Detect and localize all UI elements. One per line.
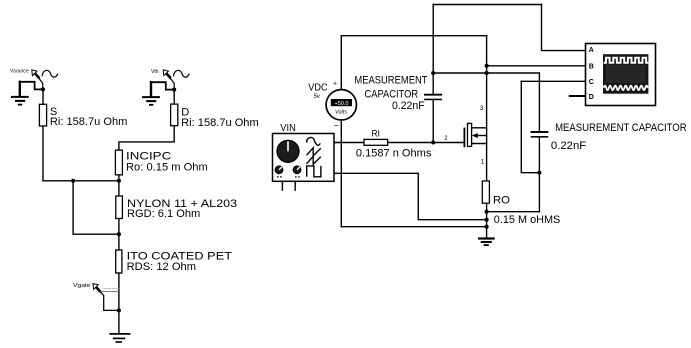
svg-text:5v: 5v bbox=[314, 94, 321, 100]
svg-text:Ri: 158.7u Ohm: Ri: 158.7u Ohm bbox=[181, 117, 259, 129]
svg-text:0.15 M oHMS: 0.15 M oHMS bbox=[494, 214, 561, 226]
svg-text:MEASUREMENT: MEASUREMENT bbox=[354, 75, 427, 87]
svg-text:+50.0: +50.0 bbox=[335, 101, 349, 107]
svg-text:Vth: Vth bbox=[151, 69, 159, 75]
svg-text:Vsource: Vsource bbox=[10, 69, 29, 75]
svg-text:B: B bbox=[589, 63, 594, 70]
svg-text:0.22nF: 0.22nF bbox=[551, 140, 587, 152]
svg-text:Vgate: Vgate bbox=[73, 283, 91, 289]
svg-text:D: D bbox=[589, 94, 594, 101]
svg-text:+: + bbox=[333, 81, 337, 88]
svg-text:CAPACITOR: CAPACITOR bbox=[365, 89, 419, 101]
svg-text:0.1587 n Ohms: 0.1587 n Ohms bbox=[356, 148, 432, 160]
svg-text:2: 2 bbox=[444, 136, 448, 142]
svg-text:RGD: 6.1 Ohm: RGD: 6.1 Ohm bbox=[127, 208, 200, 220]
svg-text:3: 3 bbox=[480, 105, 484, 112]
svg-text:RDS: 12 Ohm: RDS: 12 Ohm bbox=[127, 261, 196, 273]
svg-text:C: C bbox=[589, 79, 594, 86]
svg-text:VDC: VDC bbox=[308, 83, 327, 94]
svg-text:RI: RI bbox=[372, 129, 380, 139]
svg-text:MEASUREMENT CAPACITOR: MEASUREMENT CAPACITOR bbox=[555, 122, 687, 134]
svg-text:Volts: Volts bbox=[335, 110, 347, 116]
svg-text:A: A bbox=[589, 47, 594, 54]
svg-text:−: − bbox=[334, 121, 339, 131]
svg-text:0.22nF: 0.22nF bbox=[392, 100, 425, 112]
svg-text:VIN: VIN bbox=[280, 123, 296, 134]
svg-text:Ri: 158.7u Ohm: Ri: 158.7u Ohm bbox=[50, 116, 128, 128]
svg-text:RO: RO bbox=[493, 195, 510, 207]
svg-text:Ro: 0.15 m Ohm: Ro: 0.15 m Ohm bbox=[126, 162, 208, 174]
svg-text:1: 1 bbox=[481, 158, 485, 165]
